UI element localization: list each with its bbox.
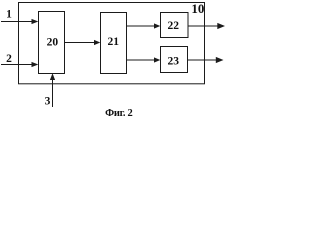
svg-text:21: 21 <box>107 36 119 48</box>
svg-text:23: 23 <box>168 56 180 68</box>
svg-text:20: 20 <box>47 37 59 49</box>
svg-text:10: 10 <box>191 1 204 16</box>
svg-text:Фиг. 2: Фиг. 2 <box>105 108 132 119</box>
svg-text:3: 3 <box>45 95 51 107</box>
svg-text:2: 2 <box>6 53 12 65</box>
svg-text:1: 1 <box>6 8 12 20</box>
svg-text:22: 22 <box>168 20 180 32</box>
